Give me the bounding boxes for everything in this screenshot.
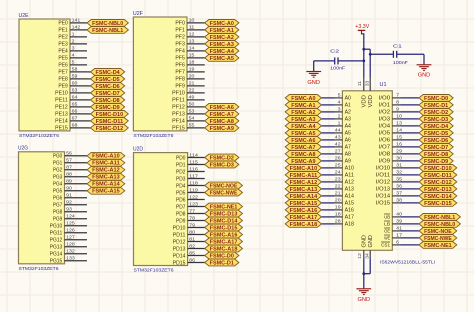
svg-text:FSMC-A18: FSMC-A18	[210, 246, 238, 252]
svg-text:FSMC-A13: FSMC-A13	[290, 187, 318, 193]
svg-text:87: 87	[66, 165, 72, 170]
svg-text:FSMC-D3: FSMC-D3	[210, 162, 234, 168]
svg-text:122: 122	[189, 194, 198, 199]
svg-text:PF2: PF2	[175, 35, 185, 41]
svg-text:FSMC-A4: FSMC-A4	[291, 124, 315, 130]
svg-text:A9: A9	[345, 159, 352, 165]
svg-text:PD7: PD7	[176, 204, 186, 210]
svg-text:FSMC-A14: FSMC-A14	[290, 194, 318, 200]
svg-text:I/O7: I/O7	[379, 145, 391, 151]
svg-text:31: 31	[396, 163, 402, 168]
svg-text:38: 38	[396, 198, 402, 203]
svg-text:58: 58	[72, 67, 78, 72]
svg-text:126: 126	[66, 228, 75, 233]
svg-text:12: 12	[189, 32, 195, 37]
svg-text:133: 133	[66, 256, 75, 261]
svg-text:91: 91	[66, 193, 72, 198]
svg-text:PG5: PG5	[53, 189, 63, 195]
svg-text:41: 41	[396, 226, 402, 231]
svg-text:FSMC-D14: FSMC-D14	[424, 194, 452, 200]
svg-text:FSMC-A17: FSMC-A17	[210, 239, 238, 245]
svg-text:PG0: PG0	[53, 154, 63, 160]
svg-text:PF6: PF6	[175, 63, 185, 69]
svg-text:PF8: PF8	[175, 77, 185, 83]
svg-text:WE: WE	[384, 236, 391, 242]
svg-text:PD1: PD1	[176, 162, 186, 168]
svg-text:64: 64	[72, 95, 78, 100]
svg-text:18: 18	[335, 212, 341, 217]
svg-text:FSMC-A8: FSMC-A8	[210, 119, 234, 125]
svg-text:A12: A12	[345, 180, 355, 186]
svg-text:FSMC-A12: FSMC-A12	[290, 180, 318, 186]
svg-text:A13: A13	[345, 187, 355, 193]
svg-text:14: 14	[396, 128, 402, 133]
svg-text:PF0: PF0	[175, 21, 185, 27]
svg-text:PE12: PE12	[55, 105, 68, 111]
svg-text:60: 60	[72, 81, 78, 86]
svg-text:PG1: PG1	[53, 161, 63, 167]
svg-text:FSMC-D4: FSMC-D4	[96, 70, 120, 76]
svg-text:116: 116	[189, 166, 198, 171]
svg-text:20: 20	[189, 74, 195, 79]
svg-text:GND: GND	[418, 72, 431, 78]
svg-text:FSMC-A10: FSMC-A10	[92, 154, 120, 160]
svg-text:PD12: PD12	[173, 239, 186, 245]
svg-text:FSMC-NE1: FSMC-NE1	[424, 243, 452, 249]
svg-text:FSMC-A13: FSMC-A13	[92, 175, 120, 181]
svg-text:FSMC-A7: FSMC-A7	[210, 112, 234, 118]
svg-text:FSMC-D2: FSMC-D2	[424, 110, 448, 116]
svg-text:100nF: 100nF	[393, 60, 408, 66]
svg-text:56: 56	[66, 151, 72, 156]
svg-text:A4: A4	[345, 124, 352, 130]
svg-text:PD10: PD10	[173, 225, 186, 231]
svg-text:42: 42	[335, 142, 341, 147]
svg-text:15: 15	[189, 53, 195, 58]
svg-text:STM32F103ZET6: STM32F103ZET6	[134, 268, 174, 274]
svg-text:37: 37	[396, 191, 402, 196]
svg-text:PD9: PD9	[176, 218, 186, 224]
svg-text:UB: UB	[384, 215, 390, 221]
svg-text:I/O2: I/O2	[379, 110, 391, 116]
svg-text:PE11: PE11	[55, 98, 68, 104]
svg-text:U2F: U2F	[133, 11, 144, 17]
svg-text:79: 79	[189, 222, 195, 227]
svg-text:PG4: PG4	[53, 182, 63, 188]
svg-text:PG2: PG2	[53, 168, 63, 174]
svg-text:PE7: PE7	[58, 70, 68, 76]
svg-text:FSMC-A9: FSMC-A9	[291, 159, 315, 165]
svg-text:FSMC-A16: FSMC-A16	[210, 232, 238, 238]
svg-text:117: 117	[189, 173, 198, 178]
svg-text:PF10: PF10	[172, 91, 185, 97]
svg-text:FSMC-D5: FSMC-D5	[96, 77, 120, 83]
svg-text:FSMC-D6: FSMC-D6	[96, 84, 120, 90]
svg-text:PD15: PD15	[173, 260, 186, 266]
svg-text:I/O15: I/O15	[376, 201, 390, 207]
svg-text:53: 53	[189, 109, 195, 114]
svg-text:PE6: PE6	[58, 63, 68, 69]
svg-text:A7: A7	[345, 145, 352, 151]
svg-text:65: 65	[72, 102, 78, 107]
svg-text:80: 80	[189, 229, 195, 234]
svg-text:PE2: PE2	[58, 35, 68, 41]
svg-text:23: 23	[335, 177, 341, 182]
svg-text:A16: A16	[345, 208, 355, 214]
svg-text:PE5: PE5	[58, 56, 68, 62]
svg-text:FSMC-D8: FSMC-D8	[96, 98, 120, 104]
svg-text:I/O12: I/O12	[376, 180, 390, 186]
svg-text:FSMC-D5: FSMC-D5	[424, 131, 448, 137]
svg-text:A8: A8	[345, 152, 352, 158]
svg-text:CS1: CS1	[381, 243, 390, 249]
svg-text:FSMC-D1: FSMC-D1	[210, 260, 234, 266]
svg-text:I/O1: I/O1	[379, 103, 391, 109]
svg-text:18: 18	[189, 60, 195, 65]
svg-text:77: 77	[189, 208, 195, 213]
svg-text:GND: GND	[307, 80, 320, 86]
svg-text:49: 49	[189, 95, 195, 100]
svg-text:21: 21	[189, 81, 195, 86]
svg-text:FSMC-NBL1: FSMC-NBL1	[92, 28, 123, 34]
svg-text:FSMC-A18: FSMC-A18	[290, 222, 318, 228]
svg-text:PE14: PE14	[55, 119, 68, 125]
svg-text:VDD: VDD	[362, 95, 368, 108]
svg-text:PE4: PE4	[58, 49, 68, 55]
svg-text:63: 63	[72, 88, 78, 93]
svg-text:A10: A10	[345, 166, 355, 172]
svg-text:FSMC-NOE: FSMC-NOE	[210, 183, 238, 189]
svg-text:U2G: U2G	[18, 146, 28, 152]
svg-text:IS62WV51216BLL-55TLI: IS62WV51216BLL-55TLI	[380, 259, 435, 265]
svg-text:114: 114	[189, 152, 198, 157]
svg-text:FSMC-D14: FSMC-D14	[210, 218, 238, 224]
svg-text:PE3: PE3	[58, 42, 68, 48]
svg-text:30: 30	[396, 156, 402, 161]
svg-text:17: 17	[396, 233, 402, 238]
svg-text:PG9: PG9	[53, 217, 63, 223]
svg-text:81: 81	[189, 236, 195, 241]
svg-text:PD3: PD3	[176, 176, 186, 182]
svg-text:FSMC-A12: FSMC-A12	[92, 168, 120, 174]
svg-text:GND: GND	[362, 235, 368, 248]
svg-text:PF5: PF5	[175, 56, 185, 62]
svg-text:86: 86	[189, 257, 195, 262]
svg-text:35: 35	[396, 177, 402, 182]
svg-text:C1: C1	[393, 43, 402, 49]
svg-text:22: 22	[335, 184, 341, 189]
svg-text:A0: A0	[345, 96, 352, 102]
svg-text:57: 57	[66, 158, 72, 163]
svg-text:12: 12	[357, 253, 362, 259]
svg-text:I/O11: I/O11	[376, 173, 390, 179]
svg-text:FSMC-A10: FSMC-A10	[290, 166, 318, 172]
svg-text:43: 43	[335, 135, 341, 140]
svg-text:FSMC-D12: FSMC-D12	[96, 126, 124, 132]
svg-text:FSMC-A15: FSMC-A15	[290, 201, 318, 207]
svg-text:I/O4: I/O4	[379, 124, 391, 130]
svg-text:A11: A11	[345, 173, 355, 179]
svg-text:FSMC-D7: FSMC-D7	[424, 145, 448, 151]
svg-text:I/O0: I/O0	[379, 96, 391, 102]
svg-text:PG11: PG11	[50, 231, 63, 237]
svg-text:FSMC-NBL0: FSMC-NBL0	[92, 21, 123, 27]
svg-text:FSMC-D11: FSMC-D11	[96, 119, 124, 125]
svg-text:141: 141	[72, 18, 81, 23]
svg-text:FSMC-A2: FSMC-A2	[210, 35, 234, 41]
svg-text:125: 125	[66, 221, 75, 226]
svg-text:118: 118	[189, 180, 198, 185]
svg-text:STM32F103ZET6: STM32F103ZET6	[19, 133, 59, 139]
svg-text:FSMC-NBL1: FSMC-NBL1	[424, 215, 455, 221]
svg-text:I/O10: I/O10	[376, 166, 390, 172]
svg-text:PD2: PD2	[176, 169, 186, 175]
svg-text:PD11: PD11	[173, 232, 186, 238]
svg-text:FSMC-A1: FSMC-A1	[291, 103, 315, 109]
svg-text:+3.3V: +3.3V	[355, 24, 369, 30]
svg-text:93: 93	[66, 207, 72, 212]
svg-text:22: 22	[189, 88, 195, 93]
svg-text:FSMC-D11: FSMC-D11	[424, 173, 452, 179]
svg-text:FSMC-D13: FSMC-D13	[210, 211, 238, 217]
svg-text:66: 66	[72, 109, 78, 114]
svg-text:PF1: PF1	[175, 28, 185, 34]
svg-text:PG14: PG14	[50, 252, 63, 258]
svg-text:FSMC-A1: FSMC-A1	[210, 28, 234, 34]
svg-text:29: 29	[396, 149, 402, 154]
svg-text:PG3: PG3	[53, 175, 63, 181]
svg-text:FSMC-D1: FSMC-D1	[424, 103, 448, 109]
svg-text:PG12: PG12	[50, 238, 63, 244]
svg-text:FSMC-A3: FSMC-A3	[210, 42, 234, 48]
svg-text:FSMC-A3: FSMC-A3	[291, 117, 315, 123]
svg-text:11: 11	[189, 25, 196, 30]
svg-text:55: 55	[189, 123, 195, 128]
svg-text:25: 25	[335, 163, 341, 168]
svg-text:FSMC-D9: FSMC-D9	[96, 105, 120, 111]
svg-text:GND: GND	[358, 297, 371, 303]
svg-text:A18: A18	[345, 222, 355, 228]
svg-text:PD8: PD8	[176, 211, 186, 217]
svg-text:85: 85	[189, 250, 195, 255]
svg-text:A17: A17	[345, 215, 355, 221]
svg-text:PF3: PF3	[175, 42, 185, 48]
svg-text:FSMC-A11: FSMC-A11	[290, 173, 318, 179]
svg-text:39: 39	[396, 219, 402, 224]
svg-text:PF11: PF11	[172, 98, 185, 104]
svg-text:PE8: PE8	[58, 77, 68, 83]
svg-text:PE10: PE10	[55, 91, 68, 97]
svg-text:I/O5: I/O5	[379, 131, 391, 137]
svg-text:A6: A6	[345, 138, 352, 144]
svg-text:FSMC-A5: FSMC-A5	[210, 56, 234, 62]
svg-text:119: 119	[189, 187, 198, 192]
svg-text:I/O3: I/O3	[379, 117, 391, 123]
svg-text:PF15: PF15	[172, 126, 185, 132]
svg-text:128: 128	[66, 242, 75, 247]
svg-text:92: 92	[66, 200, 72, 205]
svg-text:FSMC-A14: FSMC-A14	[92, 182, 120, 188]
svg-text:FSMC-D9: FSMC-D9	[424, 159, 448, 165]
svg-text:VDD: VDD	[368, 95, 374, 108]
svg-text:26: 26	[335, 156, 341, 161]
svg-text:STM32F103ZET6: STM32F103ZET6	[19, 266, 59, 272]
svg-text:STM32F103ZET6: STM32F103ZET6	[133, 133, 173, 139]
svg-text:I/O8: I/O8	[379, 152, 391, 158]
svg-text:FSMC-NE1: FSMC-NE1	[210, 204, 238, 210]
svg-text:33: 33	[365, 80, 370, 86]
svg-text:82: 82	[189, 243, 195, 248]
svg-text:GND: GND	[368, 235, 374, 248]
svg-text:142: 142	[72, 25, 81, 30]
svg-text:FSMC-A6: FSMC-A6	[210, 105, 234, 111]
svg-text:FSMC-A0: FSMC-A0	[210, 21, 234, 27]
svg-text:54: 54	[189, 116, 195, 121]
svg-text:FSMC-A4: FSMC-A4	[210, 49, 234, 55]
svg-text:19: 19	[189, 67, 195, 72]
svg-text:A15: A15	[345, 201, 355, 207]
svg-text:A14: A14	[345, 194, 355, 200]
svg-text:FSMC-D12: FSMC-D12	[424, 180, 452, 186]
svg-text:14: 14	[189, 46, 195, 51]
svg-text:11: 11	[357, 80, 362, 86]
svg-text:FSMC-A2: FSMC-A2	[291, 110, 315, 116]
svg-text:13: 13	[396, 121, 402, 126]
svg-text:20: 20	[335, 198, 341, 203]
svg-text:FSMC-D15: FSMC-D15	[424, 201, 452, 207]
svg-text:127: 127	[66, 235, 75, 240]
svg-text:FSMC-NWE: FSMC-NWE	[424, 236, 452, 242]
svg-text:124: 124	[66, 214, 75, 219]
svg-text:10: 10	[396, 114, 402, 119]
svg-text:50: 50	[189, 102, 195, 107]
svg-text:I/O6: I/O6	[379, 138, 391, 144]
svg-text:32: 32	[396, 170, 402, 175]
svg-text:PE13: PE13	[55, 112, 68, 118]
svg-text:89: 89	[66, 179, 72, 184]
svg-text:13: 13	[189, 39, 195, 44]
svg-text:FSMC-D4: FSMC-D4	[424, 124, 448, 130]
svg-text:FSMC-D3: FSMC-D3	[424, 117, 448, 123]
svg-text:21: 21	[335, 191, 341, 196]
svg-text:27: 27	[335, 149, 341, 154]
svg-text:I/O9: I/O9	[379, 159, 391, 165]
svg-text:FSMC-NWE: FSMC-NWE	[210, 190, 238, 196]
svg-text:FSMC-A11: FSMC-A11	[92, 161, 120, 167]
svg-text:FSMC-A15: FSMC-A15	[92, 189, 120, 195]
svg-text:FSMC-A6: FSMC-A6	[291, 138, 315, 144]
svg-text:PG10: PG10	[50, 224, 63, 230]
svg-text:PD4: PD4	[176, 183, 186, 189]
svg-text:123: 123	[189, 201, 198, 206]
svg-text:FSMC-A7: FSMC-A7	[291, 145, 315, 151]
svg-text:PG8: PG8	[53, 210, 63, 216]
svg-text:A3: A3	[345, 117, 352, 123]
svg-text:PE0: PE0	[58, 21, 68, 27]
svg-text:U2D: U2D	[133, 146, 143, 152]
svg-text:PF13: PF13	[172, 112, 185, 118]
svg-text:PG15: PG15	[50, 259, 63, 265]
svg-text:24: 24	[335, 170, 341, 175]
svg-text:FSMC-D0: FSMC-D0	[210, 253, 234, 259]
svg-text:PE15: PE15	[55, 126, 68, 132]
svg-text:FSMC-D10: FSMC-D10	[424, 166, 452, 172]
svg-text:19: 19	[335, 205, 341, 210]
svg-text:I/O14: I/O14	[376, 194, 390, 200]
svg-text:FSMC-D0: FSMC-D0	[424, 96, 448, 102]
svg-text:A5: A5	[345, 131, 352, 137]
svg-text:PD14: PD14	[173, 253, 186, 259]
svg-text:44: 44	[335, 128, 341, 133]
svg-text:PG6: PG6	[53, 196, 63, 202]
svg-text:FSMC-NOE: FSMC-NOE	[424, 229, 452, 235]
svg-text:PF12: PF12	[172, 105, 185, 111]
svg-text:PE1: PE1	[58, 28, 68, 34]
svg-text:PD0: PD0	[176, 155, 186, 161]
svg-text:PF4: PF4	[175, 49, 185, 55]
svg-text:PF14: PF14	[172, 119, 185, 125]
svg-text:67: 67	[72, 116, 78, 121]
svg-text:U2E: U2E	[19, 13, 29, 19]
svg-text:I/O13: I/O13	[376, 187, 390, 193]
svg-text:59: 59	[72, 74, 78, 79]
svg-text:15: 15	[396, 135, 402, 140]
svg-text:FSMC-A17: FSMC-A17	[290, 215, 318, 221]
svg-text:FSMC-D2: FSMC-D2	[210, 155, 234, 161]
svg-text:PD6: PD6	[176, 197, 186, 203]
svg-text:A1: A1	[345, 103, 352, 109]
svg-text:FSMC-A0: FSMC-A0	[291, 96, 315, 102]
svg-text:FSMC-D15: FSMC-D15	[210, 225, 238, 231]
svg-text:C2: C2	[330, 49, 339, 55]
svg-text:FSMC-A16: FSMC-A16	[290, 208, 318, 214]
svg-text:40: 40	[396, 212, 402, 217]
svg-text:28: 28	[335, 219, 341, 224]
svg-text:90: 90	[66, 186, 72, 191]
svg-text:FSMC-D10: FSMC-D10	[96, 112, 124, 118]
svg-text:FSMC-D7: FSMC-D7	[96, 91, 120, 97]
svg-text:PD13: PD13	[173, 246, 186, 252]
svg-text:88: 88	[66, 172, 72, 177]
svg-text:FSMC-NBL0: FSMC-NBL0	[424, 222, 455, 228]
svg-text:PG7: PG7	[53, 203, 63, 209]
svg-text:FSMC-D6: FSMC-D6	[424, 138, 448, 144]
svg-text:LB: LB	[384, 222, 390, 228]
svg-text:78: 78	[189, 215, 195, 220]
svg-text:PF9: PF9	[175, 84, 185, 90]
svg-text:68: 68	[72, 123, 78, 128]
svg-text:PE9: PE9	[58, 84, 68, 90]
svg-text:FSMC-D8: FSMC-D8	[424, 152, 448, 158]
svg-text:PG13: PG13	[50, 245, 63, 251]
svg-text:FSMC-A8: FSMC-A8	[291, 152, 315, 158]
svg-text:100nF: 100nF	[330, 66, 345, 72]
svg-text:34: 34	[365, 253, 370, 259]
svg-text:16: 16	[396, 142, 402, 147]
svg-text:132: 132	[66, 249, 75, 254]
svg-text:PF7: PF7	[175, 70, 185, 76]
svg-text:36: 36	[396, 184, 402, 189]
svg-text:A2: A2	[345, 110, 352, 116]
svg-text:OE: OE	[384, 229, 391, 235]
svg-text:U1: U1	[380, 82, 387, 88]
svg-text:PD5: PD5	[176, 190, 186, 196]
svg-text:10: 10	[189, 18, 195, 23]
svg-text:FSMC-A5: FSMC-A5	[291, 131, 315, 137]
svg-text:FSMC-D13: FSMC-D13	[424, 187, 452, 193]
svg-text:115: 115	[189, 159, 198, 164]
svg-text:FSMC-A9: FSMC-A9	[210, 126, 234, 132]
